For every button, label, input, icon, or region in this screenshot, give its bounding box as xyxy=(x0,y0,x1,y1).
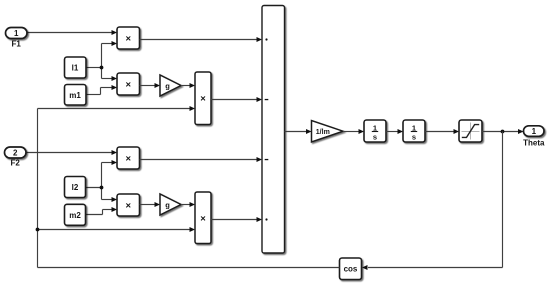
gain 1/lm xyxy=(312,121,344,143)
sum block with signs + - - + xyxy=(262,6,285,254)
svg-text:l1: l1 xyxy=(72,64,79,73)
svg-text:Theta: Theta xyxy=(523,138,545,147)
inport 1 F1 xyxy=(6,28,28,49)
product M3 xyxy=(117,147,140,169)
integrator 2 (1/s) xyxy=(403,120,425,142)
svg-text:×: × xyxy=(126,80,132,91)
svg-text:1: 1 xyxy=(14,29,19,38)
cos block xyxy=(340,258,362,280)
product P2 (vertical) xyxy=(195,192,211,244)
svg-text:l2: l2 xyxy=(72,183,79,192)
wire F1 to product M1 input1 xyxy=(27,30,117,35)
wire M2 output to gain g1 xyxy=(140,83,161,88)
svg-text:cos: cos xyxy=(344,265,358,274)
gain g1 xyxy=(160,75,181,96)
wire m2 output to M4 input2 xyxy=(85,207,117,215)
wire integrator1 to integrator2 xyxy=(386,129,403,134)
svg-text:×: × xyxy=(126,201,132,212)
svg-text:F1: F1 xyxy=(12,39,22,48)
wire l2 output junction to M3 input2 and M4 input1 xyxy=(85,160,117,202)
svg-text:×: × xyxy=(200,94,206,105)
wire feedback branch to P2 input2 xyxy=(38,227,196,232)
wire M4 output to gain g2 xyxy=(140,202,161,207)
svg-text:g: g xyxy=(165,82,170,91)
svg-text:m2: m2 xyxy=(69,211,81,220)
wire F2 to product M3 input1 xyxy=(26,150,117,155)
wire P2 output to sum input4 xyxy=(211,217,262,222)
svg-text:m1: m1 xyxy=(69,91,81,100)
wire integrator2 to saturation xyxy=(425,129,459,134)
svg-text:s: s xyxy=(373,133,377,142)
svg-text:1/lm: 1/lm xyxy=(316,129,330,136)
integrator 1 (1/s) xyxy=(364,120,386,142)
wire l1 output junction to M1 input2 and M2 input1 xyxy=(86,41,117,81)
product M1 xyxy=(117,27,140,49)
svg-text:×: × xyxy=(200,213,206,224)
gain g2 xyxy=(160,194,181,215)
wire g2 output to product P2 input1 xyxy=(181,202,195,207)
wire g1 output to product P1 input1 xyxy=(181,83,195,88)
outport 1 Theta xyxy=(523,126,545,148)
wire m1 output to M2 input2 xyxy=(86,85,117,95)
svg-text:g: g xyxy=(165,201,170,210)
svg-text:s: s xyxy=(412,133,416,142)
wire sum output to gain 1/lm xyxy=(285,129,312,134)
constant l2 xyxy=(65,177,86,198)
wire saturation output with junction to outport xyxy=(482,129,524,134)
svg-text:F2: F2 xyxy=(11,159,21,168)
product P1 (vertical) xyxy=(195,72,211,125)
product M2 xyxy=(117,73,140,95)
wire M1 output to sum input1 xyxy=(140,37,263,42)
wire cos output left and up with junction to feedback branches xyxy=(36,109,340,268)
wire M3 output to sum input3 xyxy=(140,157,263,162)
constant m1 xyxy=(65,85,87,106)
wire P1 output to sum input2 xyxy=(211,97,262,102)
wire feedback branch to P1 input2 xyxy=(38,106,196,111)
svg-text:1: 1 xyxy=(532,127,537,136)
svg-text:×: × xyxy=(126,154,132,165)
product M4 xyxy=(117,194,140,216)
wire feedback from junction down and left to cos input xyxy=(362,132,503,271)
wire 1/lm output to integrator1 xyxy=(343,129,364,134)
inport 2 F2 xyxy=(5,147,27,168)
svg-text:2: 2 xyxy=(13,149,18,158)
constant m2 xyxy=(65,204,86,225)
constant l1 xyxy=(65,57,87,78)
saturation block xyxy=(459,120,482,142)
svg-text:×: × xyxy=(126,34,132,45)
